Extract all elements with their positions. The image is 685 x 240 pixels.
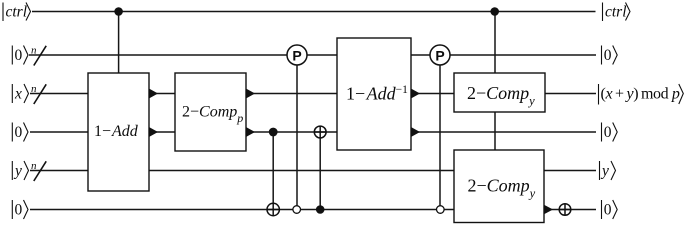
anti-control open circle on q5 under P2: [437, 206, 445, 214]
wire control drop from ctrl to 1-Add: [118, 12, 120, 74]
register size n slash on q1: [31, 45, 46, 66]
gate box 1-Add: [88, 73, 149, 191]
svg-text:1−Add: 1−Add: [94, 123, 139, 140]
right ket label 0 (q1): [602, 46, 618, 65]
arrow out of 2-Comp_p on q3: [246, 127, 255, 136]
wire q3 |0>: [30, 131, 596, 133]
wire q4 |y>n: [30, 170, 596, 172]
right ket label 0 (q5): [602, 200, 618, 219]
wire P2 control line: [439, 65, 441, 206]
right ket label 0 (q3): [602, 123, 618, 142]
arrow out of 1-Add inverse on q2: [411, 89, 420, 98]
left ket label ctrl: [3, 3, 31, 22]
svg-text:0: 0: [15, 47, 23, 64]
left ket label y (q4): [12, 161, 28, 180]
wire CNOT2 control line: [319, 126, 321, 209]
svg-text:n: n: [31, 160, 37, 172]
left ket label x (q2): [12, 84, 28, 103]
svg-text:0: 0: [15, 202, 23, 219]
gate box 2-Comp_y lower: [454, 150, 544, 223]
P gate 1: [287, 45, 307, 65]
svg-text:n: n: [31, 45, 37, 57]
svg-text:0: 0: [15, 124, 23, 141]
svg-text:0: 0: [604, 202, 612, 219]
svg-text:P: P: [435, 48, 444, 64]
right ket label (x+y) mod p (q2): [599, 84, 684, 105]
wire q2 |x>n: [30, 93, 596, 95]
svg-text:0: 0: [604, 47, 612, 64]
gate box 2-Comp_p: [175, 73, 246, 151]
svg-text:y: y: [13, 163, 22, 180]
control dot on ctrl for 1-Add: [114, 7, 123, 16]
control dot on ctrl for 2-Comp_y: [490, 7, 499, 16]
control dot on q3 at x=273: [269, 128, 278, 137]
wire q1 |0>n: [29, 54, 596, 56]
arrow out of 1-Add on q3: [149, 127, 158, 136]
P gate 2: [430, 45, 450, 65]
wire q0 ctrl: [32, 11, 596, 13]
register size n slash on q4: [31, 160, 46, 181]
left ket label 0 (q3): [12, 123, 28, 142]
register size n slash on q2: [31, 83, 46, 104]
wire CNOT1 control line: [272, 132, 274, 216]
right ket label y (q4): [600, 161, 616, 180]
left ket label 0 (q5): [12, 200, 28, 219]
svg-text:ctrl: ctrl: [605, 4, 627, 21]
svg-text:(x + y) mod p: (x + y) mod p: [601, 86, 680, 103]
svg-text:0: 0: [604, 124, 612, 141]
svg-text:n: n: [31, 83, 37, 95]
wire P1 control line: [296, 65, 298, 206]
svg-text:ctrl: ctrl: [6, 4, 28, 21]
CNOT target on q5 at x=273: [267, 203, 279, 215]
gate box 2-Comp_y upper: [454, 73, 545, 112]
CNOT target on q5 at x=565: [559, 204, 571, 216]
arrow out of 2-Comp_p on q2: [246, 89, 255, 98]
wire q5 |0>: [30, 209, 596, 211]
svg-text:y: y: [600, 163, 609, 180]
anti-control open circle on q5 under P1: [293, 206, 301, 214]
arrow out of 2-Comp_y lower on q5: [544, 205, 553, 214]
arrow out of 1-Add on q2: [149, 89, 158, 98]
CNOT target on q3 at x=320: [314, 126, 326, 138]
svg-text:x: x: [14, 86, 22, 103]
arrow out of 1-Add inverse on q3: [411, 127, 420, 136]
svg-text:P: P: [292, 48, 301, 64]
wire control drop from ctrl to 2-Comp_y boxes: [494, 12, 496, 151]
control dot on q5 at x=320: [316, 205, 325, 214]
left ket label 0 (q1): [12, 46, 28, 65]
right ket label ctrl: [603, 3, 631, 22]
gate box 1-Add inverse: [337, 38, 411, 150]
